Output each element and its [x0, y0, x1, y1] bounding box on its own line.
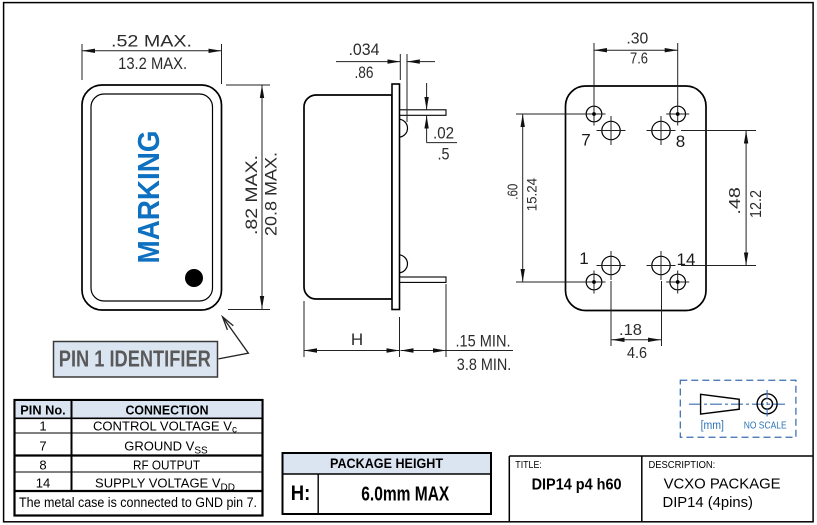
svg-text:NO SCALE: NO SCALE [744, 420, 787, 432]
svg-text:1: 1 [579, 249, 588, 268]
svg-text:VCXO PACKAGE: VCXO PACKAGE [664, 475, 781, 492]
svg-text:RF OUTPUT: RF OUTPUT [133, 458, 200, 473]
svg-text:DIP14 (4pins): DIP14 (4pins) [663, 494, 754, 511]
svg-text:6.0mm MAX: 6.0mm MAX [361, 483, 449, 506]
package height table [283, 453, 492, 514]
svg-text:.52 MAX.: .52 MAX. [111, 32, 192, 51]
pin connection table [15, 400, 263, 516]
pin hole 8 (big circle) [647, 116, 676, 145]
dimension H (side bottom) [304, 284, 446, 357]
dimension .30 / 7.6 (bottom view top) [594, 31, 678, 103]
svg-text:4.6: 4.6 [627, 345, 647, 362]
pin 1 identifier dot [185, 269, 203, 287]
svg-text:.60: .60 [505, 184, 521, 200]
dimension .60 / 15.24 (bottom view left) [505, 114, 584, 282]
svg-text:14: 14 [36, 476, 50, 491]
title block [509, 456, 813, 522]
dimension .15 / 3.8 MIN (pin length) [401, 331, 514, 374]
svg-text:8: 8 [39, 458, 46, 473]
svg-text:The metal case is connected to: The metal case is connected to GND pin 7… [19, 495, 257, 510]
PIN 1 IDENTIFIER label box [54, 342, 218, 378]
svg-text:.034: .034 [349, 40, 380, 59]
front view inner case [91, 94, 213, 301]
svg-text:CONTROL VOLTAGE Vc: CONTROL VOLTAGE Vc [93, 419, 237, 436]
svg-text:DIP14 p4 h60: DIP14 p4 h60 [532, 476, 622, 493]
projection center line horizontal [689, 403, 786, 405]
svg-text:PACKAGE HEIGHT: PACKAGE HEIGHT [330, 455, 443, 471]
svg-text:H: H [351, 330, 363, 349]
pin 1 leader arrow [219, 317, 249, 359]
svg-text:3.8 MIN.: 3.8 MIN. [457, 355, 512, 374]
svg-text:.5: .5 [438, 145, 450, 164]
mount hole bottom-right (small circle) [666, 271, 689, 294]
pin hole 14 (big circle) [647, 251, 676, 280]
projection center line vertical [766, 390, 768, 417]
svg-text:MARKING: MARKING [131, 131, 166, 264]
projection cone [701, 394, 740, 414]
svg-text:1: 1 [39, 419, 46, 434]
svg-text:.86: .86 [355, 63, 374, 82]
side view pin top [400, 110, 446, 116]
svg-text:8: 8 [676, 132, 685, 151]
pin hole 7 (big circle) [597, 116, 626, 145]
svg-text:12.2: 12.2 [748, 190, 765, 218]
mount hole top-left (small circle) [583, 103, 606, 126]
svg-text:[mm]: [mm] [701, 420, 724, 432]
side view pin bottom [400, 277, 446, 282]
dimension .034 / .86 (side top) [336, 40, 435, 122]
pin seal bump top [399, 119, 408, 137]
svg-text:.48: .48 [727, 187, 744, 215]
dimension .48 / 12.2 (bottom view right) [681, 131, 765, 266]
svg-text:TITLE:: TITLE: [515, 460, 542, 471]
svg-text:15.24: 15.24 [524, 178, 540, 211]
projection circles [757, 394, 777, 414]
mount hole bottom-left (small circle) [583, 271, 606, 294]
svg-text:.82 MAX.: .82 MAX. [242, 155, 261, 235]
svg-text:DESCRIPTION:: DESCRIPTION: [649, 460, 716, 471]
dimension .82 / 20.8 MAX (front right) [226, 85, 281, 310]
svg-text:.02: .02 [433, 123, 454, 142]
side view body [304, 95, 392, 299]
dimension .02 / .5 (pin thickness) [424, 83, 457, 164]
svg-text:20.8 MAX.: 20.8 MAX. [262, 152, 281, 236]
svg-text:14: 14 [677, 250, 696, 269]
svg-text:.30: .30 [626, 31, 648, 48]
svg-text:PIN 1 IDENTIFIER: PIN 1 IDENTIFIER [59, 346, 211, 372]
pin hole 1 (big circle) [597, 251, 626, 280]
projection symbol dashed box [680, 380, 796, 437]
svg-text:.15 MIN.: .15 MIN. [456, 331, 511, 350]
side view base plate [392, 84, 400, 310]
svg-text:.18: .18 [619, 322, 642, 339]
dimension .18 / 4.6 (bottom view bottom) [611, 281, 662, 362]
mount hole top-right (small circle) [666, 103, 689, 126]
dimension .52 / 13.2 MAX (front top) [82, 32, 222, 84]
svg-text:H:: H: [291, 482, 311, 505]
bottom view outline [566, 86, 707, 311]
front view outer case [82, 85, 222, 310]
svg-text:PIN No.: PIN No. [20, 403, 65, 418]
svg-text:7: 7 [581, 131, 590, 150]
svg-text:13.2 MAX.: 13.2 MAX. [118, 54, 187, 73]
svg-text:7.6: 7.6 [630, 51, 648, 68]
svg-text:7: 7 [39, 439, 46, 454]
svg-text:CONNECTION: CONNECTION [126, 403, 209, 418]
pin seal bump bottom [399, 255, 408, 273]
